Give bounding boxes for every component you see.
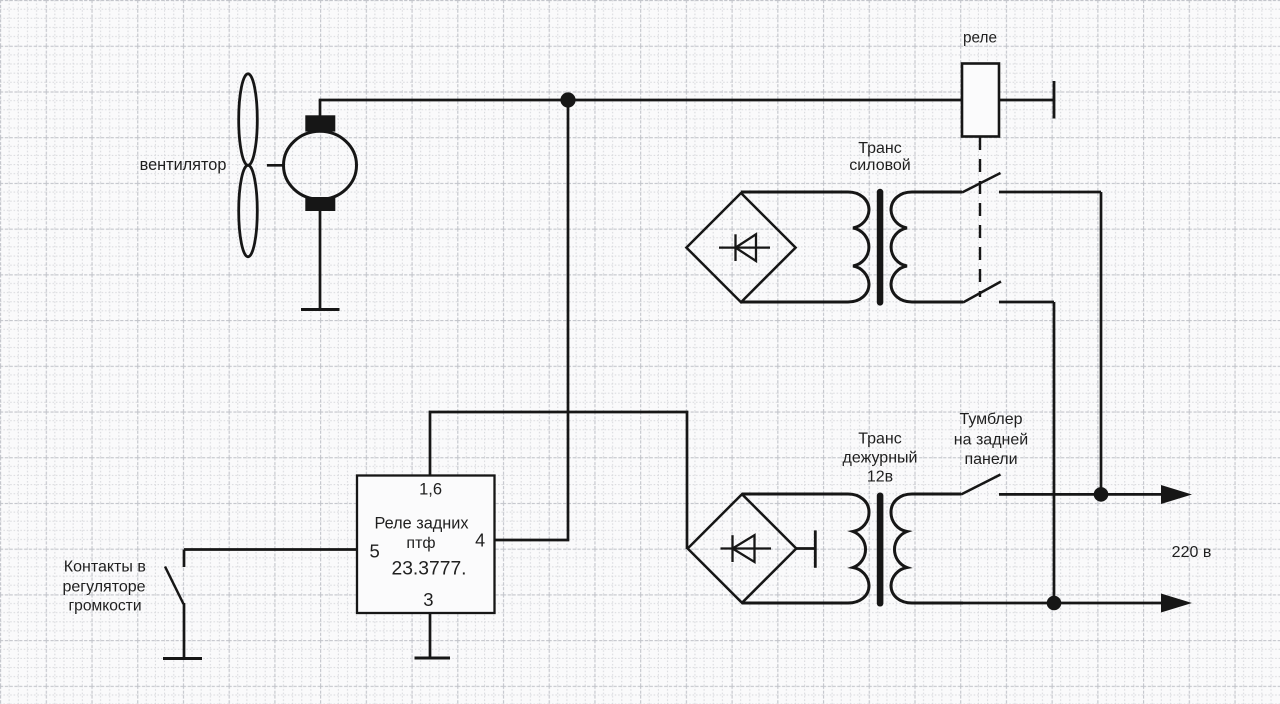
- transformer T1 left winding with top/bottom leads: [741, 192, 869, 302]
- svg-text:на задней: на задней: [954, 432, 1028, 449]
- wire from K1.1 to right riser: [999, 191, 1101, 194]
- wire bottom output line to arrow: [963, 602, 1164, 605]
- transformer T2 core: [877, 493, 884, 607]
- svg-text:12в: 12в: [867, 469, 893, 486]
- top output arrow head: [1161, 485, 1192, 504]
- relay switch contact K1.2 blade (bottom): [963, 282, 1001, 303]
- transformer T1 core: [877, 189, 884, 306]
- bridge VD1 diode cathode bar: [734, 234, 736, 261]
- wire second riser down to bottom output line: [1053, 302, 1056, 603]
- wire pin 3 to ground: [429, 613, 432, 658]
- svg-text:3: 3: [423, 589, 433, 610]
- wire motor bottom lead: [319, 211, 322, 309]
- node A junction dot: [560, 92, 575, 107]
- junction dot on bottom output line: [1047, 596, 1062, 611]
- wire motor top lead: [319, 100, 322, 116]
- wire top output line to arrow: [999, 493, 1164, 496]
- bridge VD1 diode triangle: [736, 234, 757, 261]
- wire top bus from motor to relay coil: [319, 99, 962, 102]
- wire from K1.2 to second riser: [999, 301, 1054, 304]
- wire pin 5 to volume switch: [184, 548, 357, 551]
- svg-text:Тумблер: Тумблер: [959, 411, 1022, 428]
- transformer T1 right winding with leads: [891, 192, 963, 302]
- wire relay block top pin to bridge VD2 left vertex: [430, 412, 687, 549]
- svg-text:23.3777.: 23.3777.: [391, 558, 466, 579]
- wire node A down to pin 4 of relay block: [495, 100, 568, 540]
- svg-text:громкости: громкости: [68, 598, 141, 615]
- volume regulator switch blade: [165, 567, 184, 605]
- ground under volume switch: [163, 657, 202, 660]
- bottom output arrow head: [1161, 594, 1192, 613]
- relay switch contact K1.1 blade (top): [962, 173, 1001, 193]
- svg-text:реле: реле: [963, 30, 997, 47]
- motor M1 top brush: [305, 115, 335, 131]
- wire fan shaft stub: [267, 164, 284, 167]
- ground under relay block: [415, 657, 451, 660]
- relay coil rectangle: [962, 64, 999, 137]
- bridge VD2 diode cathode bar: [731, 535, 733, 562]
- svg-text:Транс: Транс: [858, 431, 902, 448]
- VD2 output terminal bar: [814, 530, 817, 567]
- svg-text:5: 5: [370, 540, 380, 561]
- transformer T2 left winding with leads: [742, 494, 869, 603]
- wire right riser down to top output line: [1100, 192, 1103, 494]
- svg-text:регуляторе: регуляторе: [62, 579, 145, 596]
- wire volume switch to ground: [183, 603, 186, 658]
- svg-text:4: 4: [475, 531, 485, 551]
- svg-text:220 в: 220 в: [1172, 544, 1212, 561]
- volume switch stub: [183, 550, 186, 568]
- svg-text:птф: птф: [406, 535, 435, 552]
- svg-text:вентилятор: вентилятор: [140, 156, 227, 174]
- svg-text:Транс: Транс: [858, 140, 902, 157]
- relay block rectangle 23.3777: [357, 476, 495, 614]
- bridge VD2 diode anode line: [721, 547, 772, 549]
- svg-text:1,6: 1,6: [419, 481, 442, 499]
- motor M1 (fan motor) circle: [284, 131, 357, 199]
- motor M1 bottom brush: [305, 197, 335, 211]
- relay actuation dashed link: [979, 137, 981, 297]
- ground under motor: [301, 308, 340, 311]
- bridge rectifier VD1 diamond (power supply): [686, 193, 795, 302]
- svg-text:дежурный: дежурный: [843, 450, 918, 467]
- transformer T2 right winding with leads: [891, 494, 963, 603]
- svg-text:Реле задних: Реле задних: [375, 515, 469, 533]
- bridge VD2 diode triangle: [733, 535, 755, 562]
- mains terminal bar: [1053, 81, 1056, 119]
- tumbler switch blade: [961, 475, 1001, 495]
- svg-text:Контакты в: Контакты в: [64, 559, 146, 576]
- bridge rectifier VD2 diamond (standby): [688, 494, 797, 603]
- junction dot on top output line: [1094, 487, 1109, 502]
- wire relay coil to mains terminal: [999, 99, 1054, 102]
- svg-text:панели: панели: [964, 451, 1017, 468]
- fan blades: [239, 74, 258, 257]
- bridge VD1 diode anode line: [719, 246, 770, 248]
- wire VD2 right vertex to output terminal: [796, 547, 815, 550]
- svg-text:силовой: силовой: [849, 157, 911, 174]
